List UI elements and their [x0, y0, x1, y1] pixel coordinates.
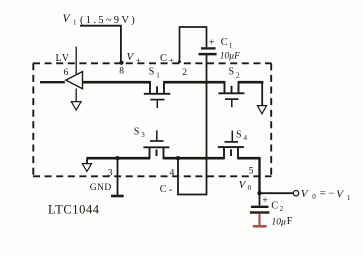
switch S4 (inverted)	[218, 131, 244, 160]
pin 4 junction dot	[176, 156, 180, 160]
svg-text:6: 6	[64, 68, 69, 78]
pin 5 wire down	[258, 158, 260, 193]
svg-text:1: 1	[156, 72, 160, 80]
output wire to terminal	[260, 192, 294, 194]
pin 2 loop wire to C1 plus	[180, 27, 207, 62]
svg-text:0: 0	[248, 184, 252, 192]
svg-text:+: +	[136, 56, 141, 66]
svg-text:2: 2	[236, 72, 240, 80]
capacitor C2 lead	[259, 193, 261, 205]
svg-text:V: V	[301, 188, 309, 200]
svg-text:+: +	[262, 196, 268, 207]
svg-text:1: 1	[73, 19, 77, 27]
wire op-amp input to left border	[40, 81, 65, 83]
switch S1	[144, 81, 171, 108]
wire S2 to ground arrow	[261, 82, 263, 105]
svg-text:V: V	[63, 13, 72, 25]
bottom rail wire (C- rail)	[87, 157, 261, 160]
pin 2 border dot	[178, 60, 181, 63]
pin 6 stub wire	[75, 47, 77, 75]
svg-text:1: 1	[229, 42, 233, 50]
svg-text:F: F	[287, 216, 293, 227]
wire V1 to pin 8	[80, 26, 121, 63]
svg-text:3: 3	[141, 131, 145, 139]
svg-text:+: +	[169, 56, 174, 66]
C2 value 10uF (red)	[272, 216, 293, 228]
svg-text:C: C	[160, 53, 167, 64]
svg-text:10μF: 10μF	[220, 52, 240, 62]
ground arrow under op-amp	[71, 89, 81, 111]
pin 8 junction dot	[119, 61, 123, 65]
switch S2	[218, 81, 244, 107]
svg-text:-: -	[169, 185, 172, 196]
node V1 label	[63, 13, 138, 27]
svg-text:V: V	[336, 189, 344, 201]
top rail wire (V+ rail)	[83, 81, 264, 84]
output equation V0 = -V1	[301, 188, 351, 202]
svg-text:3: 3	[108, 169, 113, 179]
switch S3 (inverted)	[143, 130, 169, 159]
svg-text:(1.5~9V): (1.5~9V)	[80, 15, 137, 26]
svg-text:−: −	[328, 188, 334, 199]
S4 label	[236, 130, 248, 143]
output node junction dot	[257, 191, 261, 195]
svg-text:S: S	[229, 67, 235, 78]
C1 label	[221, 37, 233, 50]
wire C1 minus down through chip	[206, 55, 208, 195]
C2 ground stem (red)	[259, 214, 261, 226]
ground arrow right of S2	[257, 106, 266, 114]
svg-text:=: =	[320, 188, 326, 199]
svg-text:5: 5	[249, 167, 254, 177]
svg-text:V: V	[239, 180, 247, 191]
net V+ label	[127, 51, 141, 66]
svg-text:2: 2	[182, 68, 187, 78]
svg-text:C: C	[271, 201, 278, 212]
svg-text:0: 0	[312, 193, 316, 201]
S2 label	[229, 67, 241, 80]
svg-text:4: 4	[244, 134, 248, 142]
C2 label	[271, 201, 283, 213]
S1 label	[149, 67, 161, 80]
svg-text:S: S	[236, 130, 242, 141]
svg-text:2: 2	[280, 205, 284, 213]
svg-text:LV: LV	[56, 53, 70, 64]
net C+ label	[160, 53, 174, 66]
S3 label	[134, 127, 146, 140]
svg-text:1: 1	[347, 194, 351, 202]
svg-text:+: +	[209, 38, 215, 49]
capacitor C2	[250, 207, 270, 213]
svg-text:LTC1044: LTC1044	[48, 203, 100, 217]
ground bar at pin 3	[111, 195, 124, 198]
svg-text:GND: GND	[90, 183, 112, 193]
svg-text:C: C	[221, 37, 228, 48]
op-amp U1 (LV comparator, pointing left)	[66, 72, 83, 89]
svg-text:10μ: 10μ	[272, 217, 287, 227]
svg-text:S: S	[134, 127, 140, 138]
IC boundary dashed box LTC1044	[33, 63, 272, 176]
svg-text:S: S	[149, 67, 155, 78]
C2 ground bar (red)	[253, 225, 267, 228]
svg-text:C: C	[160, 184, 167, 195]
svg-text:4: 4	[170, 169, 175, 179]
pin 4 wire to C1 minus	[178, 158, 207, 194]
pin 3 ground wire	[117, 158, 119, 195]
net C- label	[160, 184, 172, 196]
svg-text:8: 8	[119, 67, 124, 77]
capacitor C1	[199, 48, 217, 54]
svg-text:V: V	[127, 51, 135, 63]
net V0 label at pin 5	[239, 180, 252, 192]
output terminal circle	[293, 191, 298, 196]
pin 3 junction dot	[115, 156, 119, 160]
ground arrow at left end of bottom rail	[82, 158, 91, 171]
